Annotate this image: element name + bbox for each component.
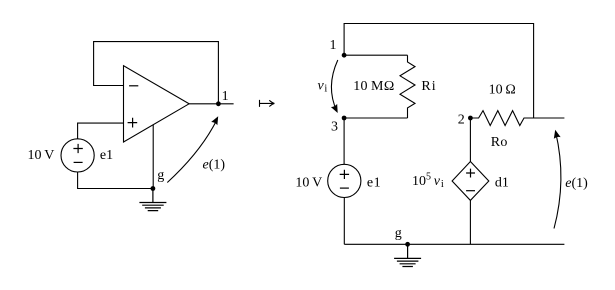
op-amp U1 [124,66,190,142]
wire: node 3 down to source e1 top (right) [343,118,345,164]
wire: e1 bottom to ground node [78,172,153,189]
op-amp non-inverting input plus sign [128,118,138,128]
arrow e(1) (left), curved from g to node 1 [167,122,216,183]
wire: right circuit top rail node1 to output corner [344,24,533,119]
ground symbol (right) at node g [394,244,421,266]
svg-text:105vi: 105vi [412,172,444,191]
svg-text:Ri: Ri [421,79,436,94]
ground symbol (left) [139,189,166,211]
svg-text:3: 3 [331,119,338,134]
svg-text:g: g [157,168,164,183]
resistor Ri [400,55,415,118]
e1 right minus sign [340,187,349,189]
node g (right) dot [405,242,410,247]
node 2 (right) dot [468,116,473,121]
wire: non-inverting input to source e1 top [78,123,124,139]
node: op-amp output node 1 (left) dot [216,101,221,106]
arrowhead of v_i [331,104,341,115]
node: ground junction g (left) dot [151,186,156,191]
svg-text:1: 1 [330,38,337,53]
node 3 (right) dot [342,116,347,121]
svg-text:Ro: Ro [491,135,508,150]
svg-text:e1: e1 [100,148,113,163]
wire: node 2 down to dependent source d1 top [469,118,471,162]
svg-text:vi: vi [318,78,328,94]
e1 right plus sign [340,170,349,179]
e1 minus sign [74,161,83,163]
wire: bottom rail [344,243,564,245]
svg-text:g: g [395,226,402,241]
e1 plus sign [73,144,82,153]
svg-text:10 V: 10 V [295,175,322,190]
mapsto symbol arrow barbs [269,100,274,106]
resistor Ro with leads from node 2 to output [470,111,564,126]
wire: resistor Ri bottom to node 3 [344,117,407,119]
op-amp inverting input minus sign [129,85,138,87]
svg-text:1: 1 [222,89,229,104]
svg-text:10 Ω: 10 Ω [489,83,516,98]
wire: feedback from output node up over top to inverting input [94,42,219,104]
wire: d1 bottom to bottom rail [469,200,471,244]
wire: op-amp output [189,103,234,105]
d1 plus sign [466,169,475,178]
svg-text:10 MΩ: 10 MΩ [353,79,394,94]
voltage source e1 (left) [61,139,94,172]
voltage source e1 (right) [328,164,361,197]
wire: node 1 to resistor Ri top [344,54,407,56]
arrowhead of e(1) right [552,129,561,139]
svg-text:10 V: 10 V [27,148,54,163]
wire: e1 bottom to bottom rail [343,198,345,245]
node 1 (right) dot [342,53,347,58]
svg-text:e(1): e(1) [203,157,226,172]
arrowhead of e(1) left [211,115,221,126]
svg-text:e1: e1 [367,175,381,190]
arrow v_i from node 1 to node 3 [331,60,337,111]
mapsto symbol shaft [260,100,274,107]
svg-text:e(1): e(1) [565,176,588,191]
svg-text:2: 2 [458,112,465,127]
arrow e(1) (right), curved from bottom rail up to output wire [554,132,561,229]
dependent source d1 (diamond) [452,162,489,201]
d1 minus sign [466,190,475,192]
svg-text:d1: d1 [495,175,509,190]
wire: op-amp bottom pin down to ground node g [152,125,154,189]
